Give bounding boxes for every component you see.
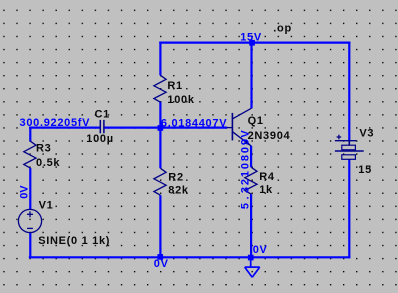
svg-text:0V: 0V <box>154 258 169 270</box>
svg-text:5.3210809V: 5.3210809V <box>239 130 251 209</box>
svg-text:0.5k: 0.5k <box>36 157 60 169</box>
svg-text:15V: 15V <box>240 31 262 43</box>
svg-text:C1: C1 <box>95 109 110 121</box>
svg-text:Q1: Q1 <box>248 115 264 127</box>
svg-text:R1: R1 <box>167 80 182 92</box>
svg-text:R3: R3 <box>36 143 51 155</box>
svg-text:1k: 1k <box>259 184 273 196</box>
svg-text:R2: R2 <box>168 171 183 183</box>
svg-text:15: 15 <box>358 164 372 176</box>
svg-text:0V: 0V <box>253 244 268 256</box>
svg-text:V1: V1 <box>39 200 54 212</box>
svg-text:300.92205fV: 300.92205fV <box>20 117 91 129</box>
svg-text:6.0184407V: 6.0184407V <box>161 117 227 129</box>
svg-text:2N3904: 2N3904 <box>248 130 291 142</box>
svg-text:SINE(0 1 1k): SINE(0 1 1k) <box>38 235 110 247</box>
svg-text:V3: V3 <box>359 127 374 139</box>
svg-text:100k: 100k <box>167 94 194 106</box>
svg-text:100µ: 100µ <box>86 133 114 145</box>
svg-text:82k: 82k <box>168 185 189 197</box>
svg-text:.op: .op <box>273 23 292 35</box>
svg-text:R4: R4 <box>259 171 275 183</box>
svg-text:0V: 0V <box>19 185 31 199</box>
